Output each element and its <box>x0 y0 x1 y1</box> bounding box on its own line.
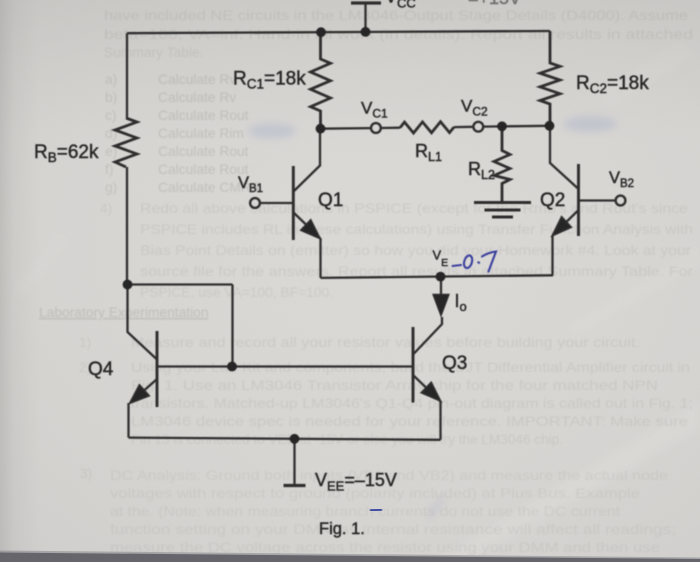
transistor Q3 <box>414 317 443 354</box>
wire left branch lower <box>126 167 128 285</box>
VCC supply bar <box>351 1 381 4</box>
svg-text:4): 4) <box>100 201 112 216</box>
svg-text:a): a) <box>105 72 117 87</box>
node dot VEE <box>290 434 300 444</box>
transistor Q1 <box>292 166 295 240</box>
wire Q4 collector-base link horizontal <box>128 283 233 285</box>
handwritten -0.7 <box>453 252 497 272</box>
svg-text:Q1: Q1 <box>318 190 343 211</box>
blue smudge left <box>248 123 296 139</box>
svg-text:3): 3) <box>80 466 92 481</box>
transistor Q2 <box>577 164 580 236</box>
wire base link Q4-Q3 <box>158 365 413 367</box>
resistor RC2 <box>540 31 560 128</box>
svg-text:f): f) <box>105 162 113 177</box>
svg-text:Laboratory Experimentation: Laboratory Experimentation <box>39 305 209 320</box>
resistor RL2 <box>494 126 510 201</box>
blue smudge right <box>563 116 617 132</box>
svg-text:c): c) <box>105 108 117 123</box>
svg-text:Calculate Rv: Calculate Rv <box>158 90 236 105</box>
resistor RC1 <box>311 32 331 127</box>
handwritten blue dash <box>370 510 382 511</box>
terminal VB2 <box>616 196 626 206</box>
svg-text:Redo all above calculations in: Redo all above calculations in PSPICE (e… <box>140 201 688 216</box>
node dot RL2 top <box>497 121 507 131</box>
svg-text:Q4: Q4 <box>88 359 114 380</box>
svg-text:Calculate Rout: Calculate Rout <box>158 144 249 159</box>
svg-text:Bias Point Details on (emitter: Bias Point Details on (emitter) so how y… <box>140 243 691 258</box>
node VC2 terminal <box>473 122 483 132</box>
VEE terminal stub <box>293 439 295 484</box>
svg-text:Fig. 1. Use an LM3046 Transis: Fig. 1. Use an LM3046 Transistor Array c… <box>131 378 658 393</box>
wire left branch upper <box>126 33 128 118</box>
svg-text:Measure and record all your re: Measure and record all your resistor val… <box>131 335 640 350</box>
resistor RL1 <box>400 122 454 133</box>
node dot base link <box>227 362 237 372</box>
ground <box>474 201 531 204</box>
svg-text:b): b) <box>105 90 117 105</box>
svg-text:RC1=18k: RC1=18k <box>233 69 306 92</box>
transistor Q4 <box>128 285 158 360</box>
svg-text:PSPICE includes RL in these ca: PSPICE includes RL in these calculations… <box>140 222 693 237</box>
faint blue streak <box>429 498 443 517</box>
node dot RC2 bottom <box>545 121 555 131</box>
svg-text:RB=62k: RB=62k <box>34 142 99 165</box>
wire RL1 to VC2 <box>454 126 473 129</box>
svg-text:Summary Table.: Summary Table. <box>104 45 203 60</box>
svg-text:RC2=18k: RC2=18k <box>576 73 649 96</box>
wire VC1 row left <box>321 127 371 130</box>
resistor RB <box>115 118 137 167</box>
wire VC2 row right <box>484 125 550 128</box>
node VC1 terminal <box>371 123 381 133</box>
svg-text:Calculate Rout: Calculate Rout <box>158 108 249 123</box>
node dot VE <box>436 272 446 282</box>
svg-text:d): d) <box>105 126 117 141</box>
svg-text:beta=100, VA=inf. Hand-in all: beta=100, VA=inf. Hand-in all work (in d… <box>104 27 693 42</box>
svg-text:LM3046 device spec is needed f: LM3046 device spec is needed for your re… <box>131 414 688 429</box>
svg-text:Fig. 1.: Fig. 1. <box>319 520 365 538</box>
svg-text:Calculate Rv: Calculate Rv <box>158 72 236 87</box>
svg-text:1): 1) <box>79 335 91 350</box>
node dot RC1 top <box>316 27 326 37</box>
svg-text:function setting on your DMM a: function setting on your DMM as internal… <box>110 522 676 537</box>
svg-text:Q3: Q3 <box>442 353 467 374</box>
svg-text:Q2: Q2 <box>540 190 565 211</box>
current arrow Io <box>440 277 442 298</box>
terminal VB1 <box>250 198 260 208</box>
svg-text:Calculate Rim: Calculate Rim <box>158 126 244 141</box>
svg-text:Calculate Rout: Calculate Rout <box>158 162 249 177</box>
wire VC1 to RL1 <box>381 127 400 130</box>
wire Q4 collector-base link vertical <box>231 285 233 367</box>
emitter rail wire <box>321 275 554 278</box>
circuit group <box>115 3 625 486</box>
svg-text:g): g) <box>105 180 117 195</box>
svg-text:=+15V: =+15V <box>468 0 521 8</box>
photo bottom edge <box>0 553 700 562</box>
top rail wire <box>127 31 550 33</box>
node dot VC1 left <box>316 124 326 134</box>
bottom rail wire <box>129 438 441 440</box>
svg-text:at the. (Note: when measurin: at the. (Note: when measuring branch cur… <box>110 504 620 519</box>
wire VCC stub <box>364 3 366 32</box>
node dot Q4 collector <box>123 280 133 290</box>
node dot VCC stub <box>361 27 371 37</box>
svg-text:PSPICE, use VA=100, BF=100.: PSPICE, use VA=100, BF=100. <box>140 285 333 300</box>
